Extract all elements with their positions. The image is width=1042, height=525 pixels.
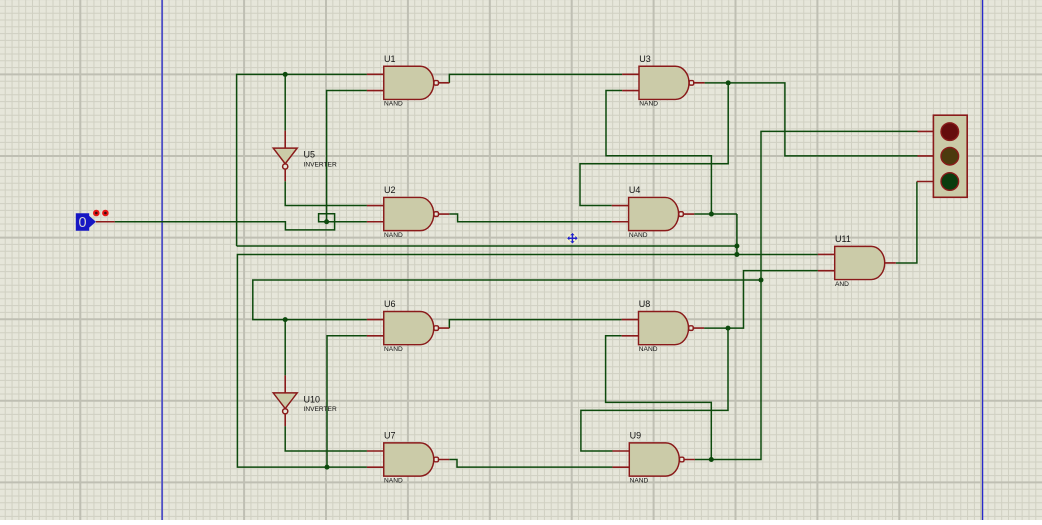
svg-text:U4: U4: [629, 185, 641, 195]
svg-text:U6: U6: [384, 299, 396, 309]
svg-text:U3: U3: [639, 54, 651, 64]
svg-text:U1: U1: [384, 54, 396, 64]
svg-text:INVERTER: INVERTER: [304, 406, 337, 413]
svg-text:NAND: NAND: [384, 232, 403, 239]
svg-text:NAND: NAND: [630, 477, 649, 484]
svg-text:U10: U10: [304, 394, 321, 404]
svg-text:INVERTER: INVERTER: [304, 161, 337, 168]
svg-text:U2: U2: [384, 185, 396, 195]
svg-text:U7: U7: [384, 431, 396, 441]
svg-text:NAND: NAND: [384, 101, 403, 108]
svg-text:NAND: NAND: [639, 101, 658, 108]
svg-text:0: 0: [79, 215, 87, 231]
svg-text:U11: U11: [835, 234, 851, 244]
svg-text:NAND: NAND: [384, 346, 403, 353]
svg-text:NAND: NAND: [639, 346, 658, 353]
svg-text:U8: U8: [639, 299, 651, 309]
svg-text:NAND: NAND: [384, 477, 403, 484]
svg-text:U5: U5: [304, 150, 316, 160]
svg-text:AND: AND: [835, 281, 849, 288]
svg-text:NAND: NAND: [629, 232, 648, 239]
svg-text:U9: U9: [630, 431, 642, 441]
